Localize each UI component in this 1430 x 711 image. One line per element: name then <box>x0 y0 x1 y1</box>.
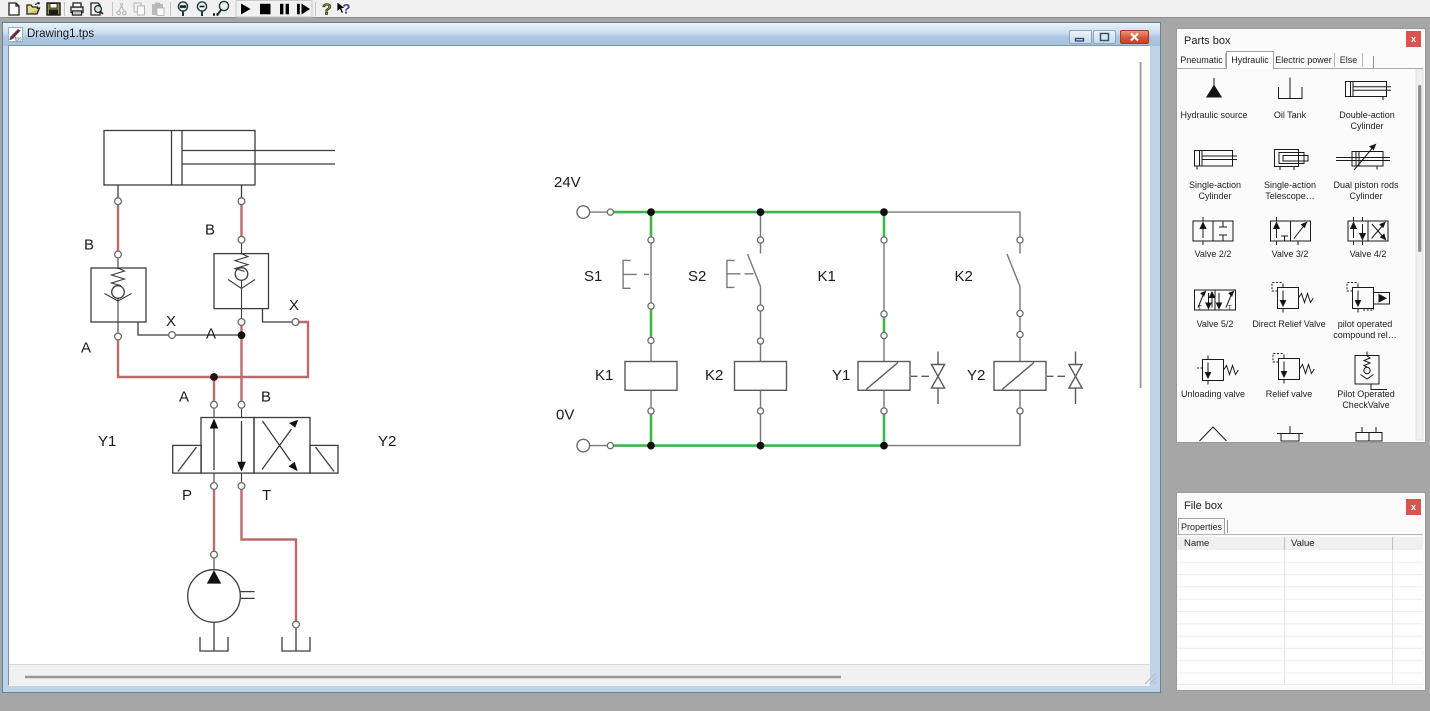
svg-text:Y1: Y1 <box>98 433 116 450</box>
svg-text:Relief valve: Relief valve <box>1266 389 1313 399</box>
svg-text:Single-action: Single-action <box>1189 180 1241 190</box>
junction nodes on rails <box>647 208 888 449</box>
scrollbar strip <box>9 62 1156 686</box>
wire: bottom rail gray segment to K2 branch <box>884 414 1020 446</box>
svg-text:Y2: Y2 <box>967 367 985 384</box>
svg-text:pilot operated: pilot operated <box>1338 319 1393 329</box>
wire: S1 branch top <box>650 212 653 237</box>
wire: K1 contact to Y1 <box>883 317 886 332</box>
part icon: double-action cylinder <box>1346 82 1392 101</box>
part icon: hydraulic source <box>1207 78 1221 97</box>
part icon: valve 5/2 <box>1195 290 1236 312</box>
part icon row6 partial: tank part <box>1277 426 1303 441</box>
maximize button <box>1093 30 1116 44</box>
svg-text:compound rel…: compound rel… <box>1333 330 1397 340</box>
file box close button <box>1406 499 1421 515</box>
wire: top rail gray segment to K2 branch <box>884 212 1020 237</box>
wire: bottom rail 0V energized <box>614 444 885 447</box>
icon: pause <box>280 4 289 15</box>
pilot-operated check valve V2 <box>214 243 292 322</box>
svg-text:Direct Relief Valve: Direct Relief Valve <box>1252 319 1325 329</box>
icon: cut (disabled) <box>117 3 126 15</box>
svg-text:Single-action: Single-action <box>1264 180 1316 190</box>
svg-text:A: A <box>206 326 216 343</box>
node: A-net junction <box>210 373 218 381</box>
parts box panel <box>1176 28 1426 443</box>
icon: zoom out <box>197 2 206 16</box>
relay coil K2 <box>735 362 787 391</box>
close button <box>1120 30 1149 44</box>
icon: stop <box>260 4 271 15</box>
svg-text:T: T <box>1228 306 1232 312</box>
table body <box>1177 550 1423 685</box>
icon: print <box>71 3 83 15</box>
svg-text:Dual piston rods: Dual piston rods <box>1333 180 1399 190</box>
svg-text:Valve 4/2: Valve 4/2 <box>1350 249 1387 259</box>
properties tab <box>1178 518 1225 535</box>
svg-text:S2: S2 <box>688 268 706 285</box>
svg-text:Valve 2/2: Valve 2/2 <box>1195 249 1232 259</box>
wire: top rail 24V energized <box>614 211 885 214</box>
svg-text:K1: K1 <box>818 268 836 285</box>
relay coil K1 <box>625 362 677 391</box>
part icon row6 partial: shock valve <box>1200 427 1227 441</box>
icon: paste (disabled) <box>152 3 164 16</box>
svg-text:Valve 3/2: Valve 3/2 <box>1272 249 1309 259</box>
hydraulic pin circles <box>115 198 300 628</box>
part labels <box>1180 110 1399 410</box>
double-acting cylinder <box>104 131 335 198</box>
svg-text:Double-action: Double-action <box>1339 110 1395 120</box>
pilot-operated check valve V1 <box>91 258 169 335</box>
branch S2/K2coil gray segments <box>748 212 761 446</box>
window icon <box>8 27 23 42</box>
electrical circuit <box>590 212 1020 446</box>
wire: Y1 to 0V <box>883 414 886 446</box>
svg-text:B: B <box>84 237 94 254</box>
icon: step <box>297 4 310 15</box>
node: X pilot junction <box>238 331 246 339</box>
svg-text:T: T <box>1198 306 1202 312</box>
tank T1 <box>200 637 228 651</box>
svg-text:B: B <box>205 222 215 239</box>
svg-text:Cylinder: Cylinder <box>1349 191 1382 201</box>
svg-text:Valve 5/2: Valve 5/2 <box>1197 319 1234 329</box>
icon: new document <box>9 3 19 15</box>
icon: copy (disabled) <box>134 3 145 15</box>
part icon: relief valve <box>1273 354 1314 384</box>
icon: zoom window <box>213 1 229 14</box>
svg-text:K1: K1 <box>595 367 613 384</box>
part icon: valve 3/2 <box>1271 217 1311 245</box>
wire: A-net branch to valve port A (red) <box>213 377 215 402</box>
valve symbol beside Y1 <box>911 352 945 405</box>
svg-text:Unloading valve: Unloading valve <box>1181 389 1245 399</box>
svg-text:X: X <box>166 313 176 330</box>
solenoid coil Y2 <box>994 362 1046 391</box>
icon: context help <box>337 1 351 17</box>
icon: open folder <box>27 3 40 15</box>
tank T2 <box>282 628 310 651</box>
parts box scrollbar <box>1416 70 1423 440</box>
file box panel <box>1176 492 1426 691</box>
part icon: single-action telescope cylinder <box>1275 150 1309 171</box>
wire: A-net V1 outlet to V2 pilot X (red) <box>118 322 308 377</box>
branch K2contact/Y2 gray segments <box>1007 243 1020 446</box>
svg-text:Cylinder: Cylinder <box>1198 191 1231 201</box>
icon: zoom in <box>178 2 187 16</box>
directional valve 4/2 body <box>201 408 310 482</box>
pushbutton S2 actuator <box>727 260 754 287</box>
svg-text:Y2: Y2 <box>378 433 396 450</box>
wire: valve P to pump (red) <box>213 489 215 551</box>
svg-text:K2: K2 <box>705 367 723 384</box>
pushbutton S1 (closed) <box>623 260 649 288</box>
svg-text:Y1: Y1 <box>832 367 850 384</box>
solenoid Y1 <box>173 445 202 473</box>
part icon: direct relief valve <box>1272 283 1313 313</box>
green energized wires <box>614 212 885 446</box>
svg-text:K2: K2 <box>955 268 973 285</box>
part icon: valve 4/2 <box>1348 217 1388 245</box>
wire: K1 branch top <box>883 212 886 237</box>
svg-text:Pilot Operated: Pilot Operated <box>1337 389 1395 399</box>
table header <box>1177 537 1423 551</box>
wire: B-net V2 outlet to valve port B (red) <box>240 325 242 401</box>
wire: 24V terminal stub <box>590 211 608 213</box>
part icon row6 partial: valve part <box>1356 427 1382 441</box>
svg-text:S1: S1 <box>584 268 602 285</box>
pump P1 <box>188 558 255 651</box>
svg-text:Telescope…: Telescope… <box>1265 191 1315 201</box>
icon: save floppy <box>47 3 60 15</box>
svg-text:Oil Tank: Oil Tank <box>1274 110 1307 120</box>
electrical pin circles <box>607 209 1023 449</box>
minimize button <box>1069 30 1092 44</box>
svg-text:A: A <box>179 389 189 406</box>
valve symbol beside Y2 <box>1047 352 1082 405</box>
svg-text:Hydraulic source: Hydraulic source <box>1180 110 1247 120</box>
svg-text:T: T <box>262 487 271 504</box>
solenoid coil Y1 <box>858 362 910 391</box>
svg-text:B: B <box>261 389 271 406</box>
wire: cylinder right port B to check valve V2 (red) <box>240 205 242 237</box>
electrical labels <box>554 174 985 424</box>
wire: cylinder left port B to check valve V1 (red) <box>117 205 119 252</box>
branch K1contact/Y1 gray segments <box>883 243 885 408</box>
hydraulic labels <box>81 222 396 505</box>
part icon: oil tank <box>1279 78 1303 99</box>
svg-text:24V: 24V <box>554 174 581 191</box>
wire: V1 pilot X to node on B-line (black) <box>175 334 241 336</box>
part icon: pilot operated compound relief valve <box>1347 283 1390 313</box>
wire: valve T to tank (red) <box>242 489 297 621</box>
svg-text:P: P <box>182 487 192 504</box>
part icon: unloading valve <box>1196 356 1239 385</box>
icon: run <box>241 4 251 15</box>
svg-text:tps: tps <box>15 37 22 43</box>
wire: S1 to K1 coil <box>650 309 653 337</box>
svg-text:A: A <box>81 340 91 357</box>
terminal 24V <box>577 206 590 219</box>
svg-text:Cylinder: Cylinder <box>1350 121 1383 131</box>
part icon: dual piston rods cylinder <box>1336 145 1390 171</box>
terminal 0V <box>577 439 590 452</box>
svg-text:0V: 0V <box>556 407 574 424</box>
toolbar button group frame (simulation) <box>236 1 312 18</box>
part icon: single-action cylinder <box>1195 151 1238 170</box>
part icon: pilot operated checkvalve <box>1355 352 1387 390</box>
branch S1/K1coil gray segments <box>650 243 652 408</box>
icon: print preview <box>91 3 103 15</box>
svg-text:CheckValve: CheckValve <box>1342 400 1389 410</box>
wire: K1 coil to 0V <box>650 414 653 446</box>
solenoid Y2 <box>310 445 338 473</box>
svg-text:X: X <box>289 297 299 314</box>
part icon: valve 2/2 <box>1193 217 1233 245</box>
svg-text:?: ? <box>322 2 332 19</box>
wire: 0V terminal stub <box>590 445 608 447</box>
parts box close button <box>1406 31 1421 47</box>
